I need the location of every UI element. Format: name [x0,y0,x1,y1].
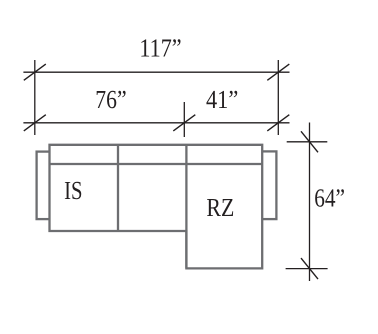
tick left of 117 dimension [24,64,46,80]
dimension line 76/41 [23,122,289,124]
svg-text:76”: 76” [95,85,126,114]
seat divider [117,145,119,231]
left armrest [37,152,54,220]
tick right of 41 dimension [267,115,289,131]
extension line bottom of 64 dimension [286,268,328,270]
tick bottom of 64 dimension [301,258,318,279]
svg-text:41”: 41” [206,85,238,114]
dimension line 117 [23,71,289,73]
extension line top of 64 dimension [287,141,328,143]
extension line left [34,60,36,135]
svg-text:RZ: RZ [206,193,234,222]
tick left of 76 dimension [24,115,46,131]
tick top of 64 dimension [301,131,318,152]
svg-text:IS: IS [64,176,82,205]
chaise left edge [185,145,187,269]
tick right of 117 dimension [267,64,289,80]
extension line right [277,60,279,135]
sofa main body outline [50,145,263,269]
backrest line [50,163,263,165]
right armrest [259,151,276,219]
svg-text:117”: 117” [139,33,181,62]
extension line middle [183,102,185,137]
svg-text:64”: 64” [314,184,345,213]
tick middle between 76 and 41 [173,115,195,131]
vertical dimension line 64 [309,123,311,282]
